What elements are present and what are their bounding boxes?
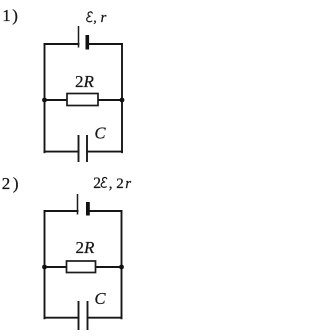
svg-text:2: 2 (2, 174, 11, 193)
svg-text:C: C (95, 289, 107, 308)
svg-text:2R: 2R (75, 72, 95, 91)
svg-text:C: C (95, 123, 107, 142)
svg-text:1: 1 (2, 6, 11, 25)
svg-text:2R: 2R (76, 238, 96, 257)
svg-text:2: 2 (93, 175, 101, 192)
svg-text:, 2: , 2 (109, 176, 124, 192)
svg-text:r: r (101, 10, 107, 26)
svg-text:r: r (125, 176, 131, 192)
svg-text:): ) (12, 6, 18, 25)
svg-text:,: , (93, 11, 97, 26)
svg-text:): ) (13, 174, 19, 193)
